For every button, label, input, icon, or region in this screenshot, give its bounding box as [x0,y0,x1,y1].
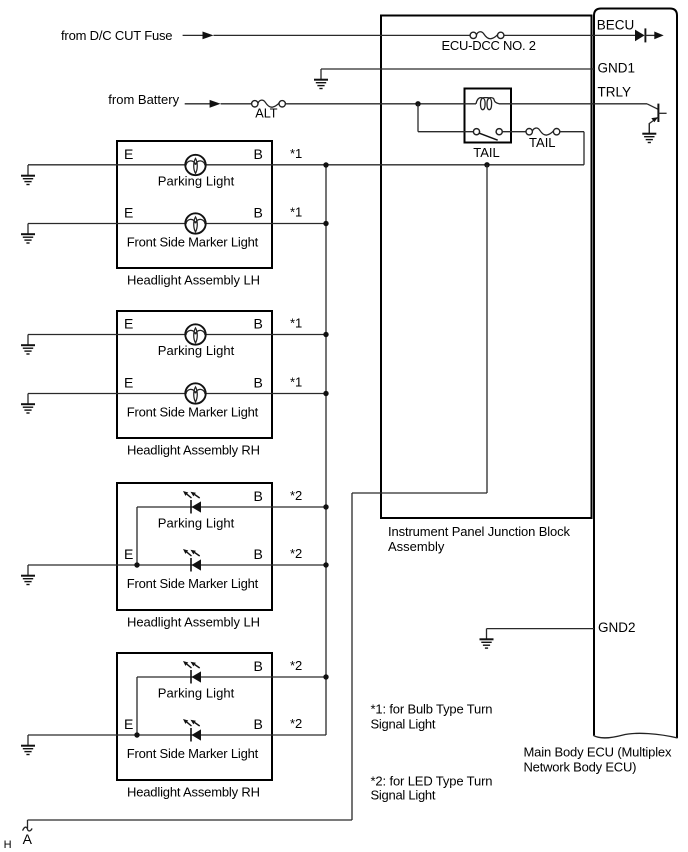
svg-text:A: A [23,831,33,847]
svg-text:TAIL: TAIL [529,135,556,150]
svg-text:*1: *1 [290,205,302,220]
svg-text:Parking Light: Parking Light [158,685,235,700]
svg-text:ECU-DCC NO. 2: ECU-DCC NO. 2 [442,38,537,53]
svg-text:B: B [254,488,263,504]
svg-text:Parking Light: Parking Light [158,515,235,530]
svg-text:*2: *2 [290,658,302,673]
svg-text:GND2: GND2 [598,620,636,635]
svg-text:GND1: GND1 [598,61,636,76]
svg-text:Signal Light: Signal Light [371,787,436,802]
svg-text:TRLY: TRLY [598,85,632,100]
svg-text:Headlight Assembly RH: Headlight Assembly RH [127,784,260,799]
svg-text:Main Body ECU (Multiplex: Main Body ECU (Multiplex [524,745,673,760]
svg-text:B: B [254,316,263,332]
svg-text:B: B [254,375,263,391]
svg-text:BECU: BECU [597,17,635,32]
svg-text:from Battery: from Battery [108,92,179,107]
svg-text:Instrument Panel Junction Bloc: Instrument Panel Junction Block [388,524,571,539]
svg-text:B: B [254,205,263,221]
svg-text:ALT: ALT [255,106,278,120]
svg-text:E: E [124,546,133,562]
svg-text:E: E [124,146,133,162]
svg-text:*1: *1 [290,375,302,390]
svg-text:TAIL: TAIL [473,145,500,160]
svg-text:Front Side Marker Light: Front Side Marker Light [127,235,259,250]
svg-text:B: B [254,146,263,162]
svg-text:Front Side Marker Light: Front Side Marker Light [127,746,259,761]
svg-text:Parking Light: Parking Light [158,343,235,358]
svg-text:*2: *2 [290,546,302,561]
svg-text:Front Side Marker Light: Front Side Marker Light [127,576,259,591]
svg-text:Headlight Assembly RH: Headlight Assembly RH [127,442,260,457]
svg-text:E: E [124,316,133,332]
svg-text:from D/C CUT Fuse: from D/C CUT Fuse [61,28,173,43]
svg-text:Headlight Assembly LH: Headlight Assembly LH [127,272,260,287]
svg-text:E: E [124,205,133,221]
svg-text:B: B [254,716,263,732]
svg-text:*2: *2 [290,488,302,503]
svg-text:Assembly: Assembly [388,539,445,554]
svg-text:E: E [124,375,133,391]
svg-text:*1: *1 [290,316,302,331]
svg-text:Signal Light: Signal Light [371,716,436,731]
svg-text:B: B [254,546,263,562]
svg-text:*1: *1 [290,146,302,161]
svg-text:Headlight Assembly LH: Headlight Assembly LH [127,614,260,629]
svg-text:*1: for Bulb Type Turn: *1: for Bulb Type Turn [371,701,493,716]
svg-text:*2: *2 [290,716,302,731]
svg-text:B: B [254,658,263,674]
svg-text:Front Side Marker Light: Front Side Marker Light [127,405,259,420]
svg-text:*2: for LED Type Turn: *2: for LED Type Turn [371,773,493,788]
svg-text:Parking Light: Parking Light [158,173,235,188]
svg-text:H: H [4,839,12,851]
svg-text:Network Body ECU): Network Body ECU) [524,760,637,775]
svg-text:E: E [124,716,133,732]
